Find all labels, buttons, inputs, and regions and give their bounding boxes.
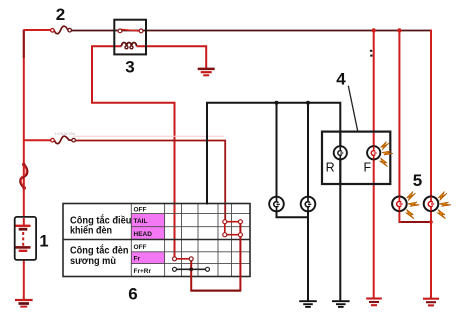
wire tail bulb left xyxy=(277,103,309,217)
table grid xyxy=(131,204,250,277)
svg-text:TAIL: TAIL xyxy=(134,218,148,225)
ground (fog lamps) xyxy=(423,299,439,306)
wire tail-fuse to light switch xyxy=(75,141,225,220)
ground (relay coil) xyxy=(198,69,215,75)
wire tail bulb right to ground xyxy=(307,103,309,301)
relay 3 box xyxy=(114,20,146,55)
relay coil wire to fog switch xyxy=(92,46,175,257)
fog bulb 5 left xyxy=(392,197,407,212)
wire head lamp F feed and ground xyxy=(373,30,375,298)
node junction xyxy=(306,101,310,105)
svg-text:khiển đèn: khiển đèn xyxy=(70,224,112,236)
black bus wire taillight feed xyxy=(207,103,340,301)
fuse F2 xyxy=(51,26,72,34)
wire tail-fuse branch left xyxy=(24,139,51,141)
node junction xyxy=(275,101,279,105)
bulb F xyxy=(367,146,380,159)
svg-text:F: F xyxy=(363,160,371,174)
svg-text:1.5 B-W 15A: 1.5 B-W 15A xyxy=(55,132,76,136)
svg-text:Fr+Rr: Fr+Rr xyxy=(134,268,152,275)
switch contact Fr closed xyxy=(175,258,192,260)
wire battery positive vertical xyxy=(23,30,25,226)
glow rays F xyxy=(380,142,393,167)
wire fog bulb right feed to ground xyxy=(430,30,432,299)
relay contact terminal right xyxy=(139,29,143,33)
wire battery negative to ground xyxy=(23,252,25,300)
contact Fr right xyxy=(189,257,193,261)
faint highlight line xyxy=(74,135,225,137)
battery 1 xyxy=(15,217,36,260)
relay contact terminal left xyxy=(118,29,122,33)
svg-text:6: 6 xyxy=(128,285,137,304)
wire jog bottom dark segment xyxy=(191,290,240,292)
svg-text:OFF: OFF xyxy=(134,244,147,251)
glow rays fog right xyxy=(438,192,452,219)
svg-text:4: 4 xyxy=(336,70,346,89)
contact HEAD right xyxy=(238,233,242,237)
contact Fr left xyxy=(173,257,177,261)
svg-text:HEAD: HEAD xyxy=(134,231,153,238)
tail bulb right xyxy=(301,197,316,212)
contact TAIL right xyxy=(238,220,242,224)
contact Fr+Rr left xyxy=(173,267,177,271)
svg-text:3: 3 xyxy=(125,58,134,77)
bulb R xyxy=(334,132,347,184)
relay coil xyxy=(122,43,137,49)
ground (tail lamp R) xyxy=(332,301,350,307)
contact TAIL left xyxy=(223,220,227,224)
svg-text:OFF: OFF xyxy=(134,206,147,213)
wire jog HEAD to Fr feed xyxy=(191,222,240,291)
relay contact arm xyxy=(122,30,140,32)
node dot feed F xyxy=(372,28,376,32)
switch contact Fr+Rr open xyxy=(175,268,208,270)
headlamp unit box 4 xyxy=(322,132,390,184)
wire top feed from battery xyxy=(24,29,51,31)
fusible link xyxy=(20,163,27,189)
fog bulb 5 right xyxy=(424,197,439,212)
pink cell HEAD xyxy=(131,227,164,240)
svg-text:1: 1 xyxy=(39,233,48,251)
ground (tail bulbs) xyxy=(299,301,317,307)
label 4 pointer xyxy=(348,86,357,131)
fuse (tail) xyxy=(51,136,76,143)
wire fog bulb left feed xyxy=(399,30,431,222)
table outer border xyxy=(63,204,250,277)
svg-text:2: 2 xyxy=(56,5,65,24)
wire main feed (dark) to right xyxy=(72,30,432,32)
node dot fog bottom xyxy=(429,220,433,224)
tail bulb left xyxy=(269,197,284,212)
svg-text:Công tắc đèn: Công tắc đèn xyxy=(70,244,129,257)
svg-text:R: R xyxy=(326,160,335,174)
ground (battery) xyxy=(15,300,33,307)
node dot feed fog left xyxy=(397,28,401,32)
svg-text:Fr: Fr xyxy=(134,256,141,263)
svg-text:5: 5 xyxy=(413,171,422,190)
relay coil wire to ground xyxy=(137,46,207,68)
svg-text:Công tắc điều: Công tắc điều xyxy=(70,213,132,226)
pink cell TAIL xyxy=(131,214,164,227)
switch contacts TAIL/HEAD xyxy=(225,220,241,235)
contact HEAD left xyxy=(223,233,227,237)
glow rays fog left xyxy=(406,192,420,219)
contact Fr+Rr right xyxy=(206,267,210,271)
switch table 6 xyxy=(63,204,250,277)
stray mark xyxy=(370,50,372,52)
node dot Fr+Rr junction xyxy=(189,267,193,271)
ground (head lamp F) xyxy=(366,299,382,306)
pink cell Fr xyxy=(131,252,164,264)
wire fog bulb left bottom dark xyxy=(401,221,431,223)
svg-text:sương mù: sương mù xyxy=(70,256,116,267)
